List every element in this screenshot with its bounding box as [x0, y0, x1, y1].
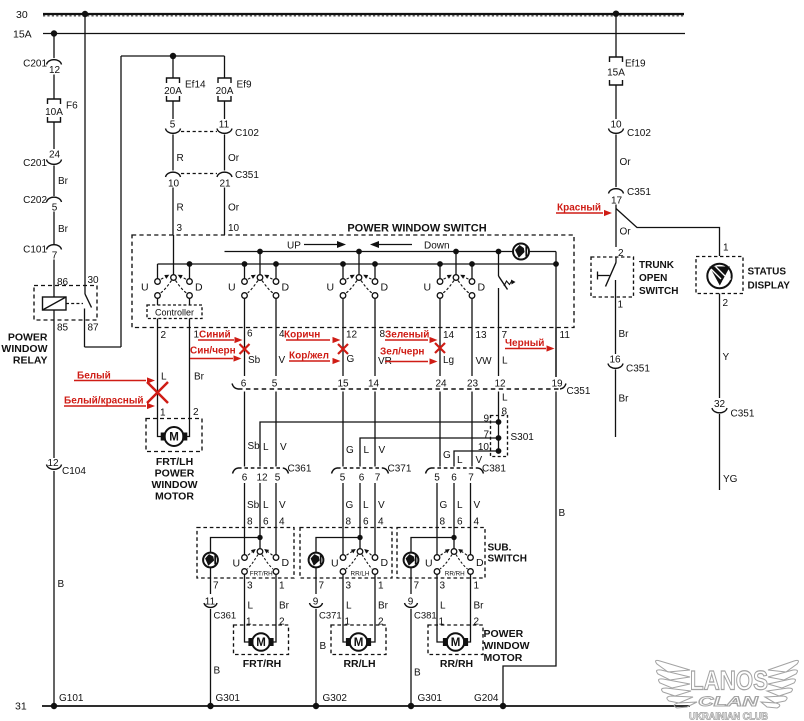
- wire group3 lower-left down: [342, 298, 344, 376]
- svg-text:U: U: [425, 558, 433, 570]
- status display LED: [707, 264, 731, 288]
- svg-text:C351: C351: [627, 187, 651, 198]
- svg-text:L: L: [502, 393, 508, 404]
- svg-text:14: 14: [443, 330, 455, 341]
- svg-text:2: 2: [378, 617, 384, 628]
- svg-text:G301: G301: [216, 693, 241, 704]
- svg-text:Br: Br: [194, 372, 205, 383]
- svg-text:C101: C101: [23, 245, 47, 256]
- junction dot G301 front: [207, 703, 213, 709]
- svg-text:1: 1: [474, 581, 480, 592]
- svg-text:5: 5: [434, 473, 440, 484]
- wire C201-12 to fuse F6: [53, 75, 55, 100]
- svg-text:3: 3: [346, 581, 352, 592]
- svg-text:R: R: [177, 203, 184, 214]
- svg-text:DISPLAY: DISPLAY: [748, 281, 791, 292]
- svg-text:V: V: [279, 355, 286, 366]
- controller box: [147, 305, 202, 319]
- wire FRT/RH switch pin 1 to motor: [275, 574, 277, 625]
- svg-text:C351: C351: [731, 409, 755, 420]
- wire RR/RH switch pin 1 to motor: [470, 574, 472, 625]
- svg-text:Or: Or: [228, 153, 240, 164]
- switch contacts group3: [356, 275, 362, 281]
- junction dot group2 left: [242, 261, 248, 267]
- connector C381 row: [431, 467, 478, 469]
- svg-text:17: 17: [611, 196, 623, 207]
- wire Br below C351-16: [615, 370, 617, 438]
- svg-text:D: D: [282, 557, 290, 569]
- svg-text:D: D: [195, 282, 203, 294]
- wire V to RR/RH sub-switch pin 4: [470, 483, 472, 555]
- wire lockout fixed contact to pin 7: [498, 288, 500, 376]
- svg-text:20A: 20A: [164, 86, 182, 97]
- wire Br trunk switch to C351-16: [615, 297, 617, 354]
- svg-text:C351: C351: [567, 386, 591, 397]
- wire V to FRT/RH sub-switch pin 4: [275, 483, 277, 555]
- svg-text:Br: Br: [58, 224, 69, 235]
- wire Or C102-10 to C351-17: [615, 135, 617, 188]
- connector C202 pin 5: [47, 197, 62, 202]
- wire 30 rail to fuse Ef19: [615, 14, 617, 57]
- wire into motor RR/LH right: [371, 625, 376, 642]
- svg-text:5: 5: [52, 203, 58, 214]
- svg-text:16: 16: [609, 355, 621, 366]
- svg-text:U: U: [331, 558, 339, 570]
- svg-text:8: 8: [440, 517, 446, 528]
- svg-text:LANOS: LANOS: [690, 666, 768, 696]
- wire switch pin3 feed to group1 center: [173, 235, 175, 275]
- red X mark Lg wire: [435, 343, 445, 353]
- junction dot lamp branch RR/LH: [357, 535, 362, 540]
- svg-text:B: B: [58, 579, 65, 590]
- svg-text:C361: C361: [288, 464, 312, 475]
- svg-text:2: 2: [193, 407, 199, 418]
- svg-text:D: D: [478, 282, 486, 294]
- svg-text:B: B: [414, 668, 421, 679]
- svg-text:V: V: [280, 442, 287, 453]
- fuse Ef14 20A: [167, 78, 180, 83]
- svg-text:4: 4: [474, 517, 480, 528]
- svg-text:YG: YG: [723, 474, 738, 485]
- svg-text:B: B: [559, 508, 566, 519]
- junction dot group3 left: [340, 261, 346, 267]
- junction dot group4 center on upper bus: [453, 249, 459, 255]
- node branch below C351-17: [615, 205, 617, 248]
- svg-text:6: 6: [263, 517, 269, 528]
- svg-text:7: 7: [319, 581, 325, 592]
- svg-text:2: 2: [723, 298, 729, 309]
- svg-text:Br: Br: [619, 329, 630, 340]
- wire R C102-5 to C351-10: [172, 135, 174, 171]
- svg-text:C371: C371: [388, 464, 412, 475]
- svg-text:15A: 15A: [13, 29, 32, 41]
- svg-text:G301: G301: [418, 693, 443, 704]
- svg-text:M: M: [354, 637, 364, 649]
- wire into motor RR/LH left: [343, 625, 347, 642]
- relay coil to contact dashed link: [66, 303, 83, 305]
- junction dot lockout branch: [496, 249, 502, 255]
- junction dot G101: [51, 703, 57, 709]
- wire feed to fuse Ef9: [224, 56, 226, 78]
- svg-text:V: V: [279, 500, 286, 511]
- connector C351 pin 21: [217, 172, 232, 177]
- svg-text:Br: Br: [378, 601, 389, 612]
- wire Y status display to C351-32: [719, 294, 721, 399]
- svg-text:Br: Br: [474, 601, 485, 612]
- svg-text:POWER: POWER: [155, 468, 195, 480]
- svg-text:1: 1: [279, 581, 285, 592]
- svg-text:8: 8: [247, 517, 253, 528]
- illumination lamp RR/RH: [404, 553, 419, 568]
- svg-text:Красный: Красный: [557, 203, 601, 214]
- wire lamp branch RR/LH: [316, 538, 360, 553]
- wire lamp branch FRT/RH: [211, 538, 261, 553]
- wire relay 85 down to C104: [53, 310, 55, 458]
- junction dot group3 center on upper bus: [356, 249, 362, 255]
- wire group4 lower-right down: [471, 298, 473, 376]
- sub-switch RR/RH box: [397, 528, 485, 579]
- junction dot lamp branch RR/RH: [451, 535, 456, 540]
- wire FRT/RH switch pin 3 to motor: [244, 574, 246, 625]
- junction dot lower bus right end: [553, 261, 559, 267]
- switch contacts group2: [257, 275, 263, 281]
- wire 30 rail to relay switch: [84, 14, 86, 294]
- illumination lamp RR/LH: [309, 553, 324, 568]
- wire pin 11 down from lower bus: [555, 264, 557, 377]
- svg-text:31: 31: [15, 701, 27, 713]
- status display box: [696, 257, 743, 294]
- svg-text:13: 13: [476, 330, 488, 341]
- wire V to RR/LH sub-switch pin 4: [374, 483, 376, 555]
- wire 31 ground bus: [42, 705, 690, 707]
- svg-text:L: L: [502, 356, 508, 367]
- svg-text:12: 12: [49, 65, 61, 76]
- wire lower bus U-D common: [158, 263, 557, 265]
- svg-text:CLAN: CLAN: [698, 693, 759, 709]
- wire L to RR/RH sub-switch pin 6: [453, 483, 455, 549]
- svg-text:VW: VW: [476, 356, 493, 367]
- svg-text:6: 6: [363, 517, 369, 528]
- red X mark L wire motor: [147, 382, 168, 403]
- connector C201 pin 12: [47, 60, 62, 65]
- svg-text:6: 6: [451, 473, 457, 484]
- svg-text:6: 6: [359, 473, 365, 484]
- wire Ef19 to C102-10: [615, 85, 617, 119]
- svg-text:Down: Down: [424, 241, 450, 252]
- svg-text:D: D: [476, 557, 484, 569]
- label Down with arrow: [370, 241, 379, 248]
- svg-text:FRT/RH: FRT/RH: [250, 571, 273, 578]
- wire Br C202-5 to C101-7: [53, 212, 55, 245]
- svg-text:S301: S301: [511, 432, 535, 443]
- svg-text:3: 3: [440, 581, 446, 592]
- fuse Ef19 15A: [610, 57, 623, 62]
- wire YG below C351-32: [719, 414, 721, 490]
- splice S301 box: [491, 416, 508, 457]
- svg-text:24: 24: [435, 379, 447, 390]
- svg-text:Син/черн: Син/черн: [190, 346, 236, 357]
- motor M FRT/RH: [252, 633, 270, 651]
- svg-text:2: 2: [279, 617, 285, 628]
- wire Sb to FRT/RH sub-switch pin 8: [244, 483, 246, 555]
- svg-text:15: 15: [337, 379, 349, 390]
- junction dot G302: [313, 703, 319, 709]
- svg-text:U: U: [327, 282, 335, 294]
- wire relay 87 to fuse feed riser: [85, 346, 122, 348]
- svg-text:RR/RH: RR/RH: [440, 658, 473, 670]
- svg-text:Кор/жел: Кор/жел: [289, 351, 329, 362]
- wire into motor FRT/RH left: [245, 625, 250, 642]
- svg-text:C102: C102: [627, 128, 651, 139]
- wire feed to fuse Ef14: [172, 56, 174, 78]
- wire 15A rail down to C201-12: [53, 34, 55, 59]
- wire group3 left contact: [342, 264, 344, 279]
- wire Br C201-24 to C202-5: [53, 166, 55, 197]
- splice S301 dot 7: [496, 435, 502, 441]
- wire into motor RR/RH left: [437, 625, 444, 642]
- motor FRT/LH box: [146, 419, 202, 452]
- illumination lamp main switch: [513, 244, 529, 260]
- svg-text:POWER WINDOW SWITCH: POWER WINDOW SWITCH: [347, 223, 486, 235]
- wire RR/RH switch pin 3 to motor: [436, 574, 438, 625]
- svg-text:C351: C351: [235, 170, 259, 181]
- trunk open switch: [615, 257, 617, 263]
- svg-text:Ef19: Ef19: [625, 59, 646, 70]
- svg-text:19: 19: [551, 379, 563, 390]
- relay K1 power window relay box: [34, 286, 97, 321]
- svg-text:C104: C104: [62, 466, 86, 477]
- junction dot group2 right: [273, 261, 279, 267]
- svg-text:9: 9: [483, 414, 489, 425]
- svg-text:7: 7: [375, 473, 381, 484]
- svg-text:Br: Br: [619, 394, 630, 405]
- wire group3 lower-right down: [374, 298, 376, 376]
- switch contacts RR/LH: [357, 549, 363, 555]
- wire into motor FRT/RH right: [273, 625, 276, 642]
- sub-switch FRT/RH box: [197, 528, 294, 579]
- pin 11 wire through C351-19: [555, 328, 557, 378]
- wire group4 center contact: [455, 252, 457, 276]
- relay switch blade: [85, 294, 92, 308]
- wire group2 center contact: [259, 252, 261, 276]
- switch contacts group4: [453, 275, 459, 281]
- wire L to FRT/RH sub-switch pin 6: [259, 483, 261, 549]
- svg-text:5: 5: [170, 120, 176, 131]
- svg-text:Синий: Синий: [199, 330, 231, 341]
- wire L branch S301-10 to C381-6: [454, 451, 499, 467]
- svg-text:12: 12: [47, 458, 59, 469]
- svg-text:1: 1: [345, 617, 351, 628]
- svg-text:Br: Br: [279, 601, 290, 612]
- svg-text:L: L: [248, 601, 254, 612]
- svg-text:SWITCH: SWITCH: [488, 554, 527, 565]
- svg-text:30: 30: [88, 275, 100, 286]
- svg-text:Or: Or: [620, 227, 632, 238]
- wire lamp FRT/RH to connector: [210, 568, 212, 595]
- svg-text:M: M: [256, 637, 266, 649]
- wire Or C102-11 to C351-21: [224, 135, 226, 171]
- motor FRT/RH box: [234, 625, 289, 655]
- svg-text:23: 23: [467, 379, 479, 390]
- junction dot lamp branch FRT/RH: [257, 535, 262, 540]
- svg-text:POWER: POWER: [484, 628, 524, 640]
- wire group3 center contact: [358, 252, 360, 276]
- motor M RR/LH: [350, 633, 368, 651]
- svg-text:7: 7: [52, 251, 58, 262]
- svg-text:2: 2: [474, 617, 480, 628]
- wire 30 rail: [43, 13, 684, 15]
- svg-text:G101: G101: [59, 693, 84, 704]
- svg-text:V: V: [474, 500, 481, 511]
- wire R C351-10 to switch pin 3: [172, 188, 174, 236]
- svg-text:TRUNK: TRUNK: [639, 260, 675, 271]
- wire G C351-15 to C371-5: [342, 392, 344, 467]
- svg-text:UP: UP: [287, 241, 301, 252]
- junction dot group3 right: [372, 261, 378, 267]
- svg-text:1: 1: [723, 243, 729, 254]
- svg-text:G: G: [346, 500, 354, 511]
- svg-text:WINDOW: WINDOW: [151, 479, 197, 491]
- svg-text:7: 7: [213, 581, 219, 592]
- svg-text:C201: C201: [23, 158, 47, 169]
- junction dot group1 right: [187, 261, 193, 267]
- svg-text:5: 5: [275, 473, 281, 484]
- svg-text:OPEN: OPEN: [639, 273, 667, 284]
- wire L to RR/LH sub-switch pin 6: [359, 483, 361, 549]
- wire B lamp RR/LH to ground: [315, 609, 317, 706]
- svg-text:86: 86: [57, 277, 69, 288]
- svg-text:L: L: [161, 372, 167, 383]
- connector C101 pin 7: [47, 245, 62, 250]
- svg-text:6: 6: [457, 517, 463, 528]
- motor M RR/RH: [447, 633, 465, 651]
- svg-text:10: 10: [168, 179, 180, 190]
- svg-text:B: B: [320, 641, 327, 652]
- svg-text:Зел/черн: Зел/черн: [380, 347, 424, 358]
- svg-text:D: D: [381, 282, 389, 294]
- svg-text:C102: C102: [235, 128, 259, 139]
- svg-text:M: M: [169, 432, 179, 444]
- svg-text:14: 14: [368, 379, 380, 390]
- svg-text:7: 7: [468, 473, 474, 484]
- svg-text:1: 1: [439, 617, 445, 628]
- svg-text:Sb: Sb: [248, 441, 261, 452]
- svg-text:1: 1: [378, 581, 384, 592]
- svg-text:RELAY: RELAY: [13, 355, 48, 367]
- wire group1 lower-left to controller: [157, 298, 159, 305]
- junction dot 30 rail: [82, 11, 88, 17]
- illumination lamp FRT/RH: [203, 553, 218, 568]
- svg-text:11: 11: [219, 120, 230, 131]
- svg-text:2: 2: [161, 330, 167, 341]
- wire group3 right contact: [374, 264, 376, 279]
- svg-text:RR/LH: RR/LH: [343, 658, 375, 670]
- motor RR/LH box: [331, 625, 386, 655]
- svg-text:UKRAINIAN CLUB: UKRAINIAN CLUB: [689, 712, 768, 721]
- svg-text:C201: C201: [23, 59, 47, 70]
- svg-text:Br: Br: [58, 176, 69, 187]
- svg-text:L: L: [263, 442, 269, 453]
- svg-text:12: 12: [256, 473, 268, 484]
- svg-text:9: 9: [408, 597, 414, 608]
- svg-text:V: V: [379, 445, 386, 456]
- svg-text:C381: C381: [414, 611, 437, 622]
- wire G to RR/RH sub-switch pin 8: [436, 483, 438, 555]
- wire lamp RR/RH to connector: [410, 568, 412, 595]
- motor M FRT/LH: [165, 427, 184, 446]
- splice S301 dot 10: [496, 448, 502, 454]
- wire lamp branch RR/RH: [411, 538, 454, 553]
- svg-text:L: L: [263, 500, 269, 511]
- svg-text:Черный: Черный: [505, 338, 544, 349]
- wire V C351-23 to C381-7: [471, 392, 473, 467]
- motor RR/RH box: [428, 625, 483, 655]
- svg-text:L: L: [346, 601, 352, 612]
- wire controller pin2 down: [157, 319, 159, 418]
- junction dot fuse feed Ef14: [170, 53, 176, 59]
- svg-text:8: 8: [346, 517, 352, 528]
- svg-text:Ef14: Ef14: [185, 80, 206, 91]
- svg-text:9: 9: [313, 597, 319, 608]
- wire group2 left contact: [244, 264, 246, 279]
- wire group2 right contact: [275, 264, 277, 279]
- svg-text:L: L: [457, 455, 463, 466]
- svg-text:MOTOR: MOTOR: [484, 652, 523, 664]
- sub-switch RR/LH box: [300, 528, 392, 579]
- svg-text:11: 11: [560, 330, 571, 341]
- svg-text:WINDOW: WINDOW: [1, 343, 47, 355]
- LANOS CLAN watermark logo: [656, 660, 799, 708]
- svg-text:U: U: [228, 282, 236, 294]
- svg-text:15A: 15A: [607, 67, 625, 78]
- wire 15A rail: [43, 33, 685, 35]
- svg-text:U: U: [233, 558, 241, 570]
- svg-text:7: 7: [414, 581, 420, 592]
- svg-text:U: U: [424, 282, 432, 294]
- svg-text:10: 10: [228, 223, 240, 234]
- svg-text:4: 4: [378, 517, 384, 528]
- wire L C351-12 to splice S301: [498, 392, 500, 452]
- fuse F6 10A: [48, 99, 61, 104]
- wire B C104 to ground G101: [53, 471, 55, 706]
- wire F6 to C201-24: [53, 122, 55, 149]
- splice S301 dot 9: [496, 419, 502, 425]
- wire V C351-5 to C361-5: [275, 392, 277, 467]
- junction dot G301 rear: [408, 703, 414, 709]
- svg-text:FRT/RH: FRT/RH: [243, 658, 282, 670]
- connector C371 row: [337, 467, 383, 469]
- svg-text:L: L: [457, 500, 463, 511]
- svg-text:G: G: [346, 445, 354, 456]
- svg-text:B: B: [214, 666, 221, 677]
- wire L branch S301-7 to C371-6: [360, 438, 499, 467]
- svg-text:C202: C202: [23, 195, 47, 206]
- wire G to RR/LH sub-switch pin 8: [342, 483, 344, 555]
- svg-text:L: L: [440, 601, 446, 612]
- svg-text:FRT/LH: FRT/LH: [156, 456, 193, 468]
- svg-text:RR/LH: RR/LH: [351, 571, 370, 578]
- junction dot group2 center on upper bus: [257, 249, 263, 255]
- connector C361 row: [238, 467, 283, 469]
- svg-text:Or: Or: [620, 157, 632, 168]
- trunk open switch box: [591, 257, 634, 297]
- lockout switch: [498, 252, 500, 277]
- svg-text:Controller: Controller: [155, 308, 194, 318]
- red X mark Sb wire: [240, 344, 250, 354]
- svg-text:12: 12: [494, 379, 506, 390]
- svg-text:SUB.: SUB.: [488, 543, 512, 554]
- wire B main switch ground to G204: [503, 392, 556, 707]
